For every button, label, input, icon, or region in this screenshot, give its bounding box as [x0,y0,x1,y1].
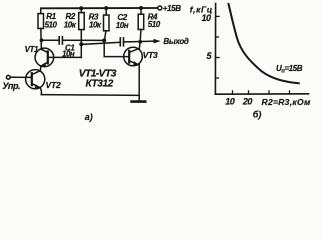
terminal Upr [6,75,10,79]
wire: VT3 emitter down to ground [138,65,140,101]
wire: bottom rail [41,94,139,97]
resistor R3 [104,8,110,31]
junction R2 top on +15V rail [79,6,83,10]
capacitor C1 [59,37,62,44]
wire: C1 right to R3 node [62,39,104,41]
svg-text:КТ312: КТ312 [86,78,114,89]
wire: C2 right to VT3 collector node, output line [124,40,155,43]
junction R3 bottom / C1 right node [102,38,106,42]
wire: VT2 emitter down to bottom rail [40,88,41,95]
svg-text:510: 510 [45,20,58,29]
curve f(R) [229,4,299,83]
svg-text:10н: 10н [116,21,129,30]
wire: VT3 collector up to R4 junction [138,42,141,49]
output arrow head [154,39,161,44]
svg-text:VT3: VT3 [143,50,158,60]
junction R4 bottom / VT3 collector / output node [138,40,142,44]
svg-text:VT2: VT2 [46,80,61,90]
x-axis [215,93,308,95]
capacitor C2 [120,38,123,46]
wire: VT1 base lead [48,56,82,58]
transistor VT1 [35,48,54,67]
junction R3 top on +15V rail [104,6,108,10]
wire: Upr input to VT2 base [10,76,32,78]
svg-text:510: 510 [148,20,161,29]
junction R2 lead / C2 left node [79,42,83,46]
resistor R1 [38,8,44,28]
svg-text:20: 20 [242,97,253,107]
svg-text:Uп=15В: Uп=15В [276,64,303,74]
svg-text:10к: 10к [89,20,102,29]
resistor R4 [138,8,144,30]
svg-text:+15В: +15В [163,4,182,13]
y ticks [216,16,290,94]
wire: R1 bottom to VT1 collector [40,29,43,50]
svg-text:10к: 10к [64,20,77,29]
svg-text:Выход: Выход [163,37,189,46]
ground [132,100,146,103]
svg-text:VT1: VT1 [25,45,39,54]
svg-text:а): а) [85,112,93,122]
svg-text:Упр.: Упр. [2,81,20,91]
terminal +15V [158,6,162,10]
x ticks [232,91,234,94]
wire: VT1 emitter to VT2 collector [39,66,42,71]
junction VT1 collector / C1 left node [40,38,44,42]
resistor R2 [79,8,85,29]
wire: VT1 collector to C1 left [42,39,60,41]
svg-text:R2=R3,кОм: R2=R3,кОм [262,97,311,107]
svg-text:10: 10 [225,97,235,107]
y-axis f [214,4,216,95]
transistor VT2 [26,70,45,89]
wire: +15V top rail [41,7,158,9]
transistor VT3 [124,47,143,66]
svg-text:б): б) [253,110,262,120]
wire: R3 bottom lead [105,31,106,41]
junction R4 top on +15V rail [139,6,143,10]
wire: R4 bottom to VT3 collector junction [139,30,142,42]
wire: R3 node down to VT3 base [104,40,129,56]
svg-text:10: 10 [202,13,212,23]
wire: R2 bottom lead down to VT1 base level [80,30,82,58]
svg-text:10н: 10н [62,49,75,58]
wire: R2 node to C2 left [81,42,120,44]
